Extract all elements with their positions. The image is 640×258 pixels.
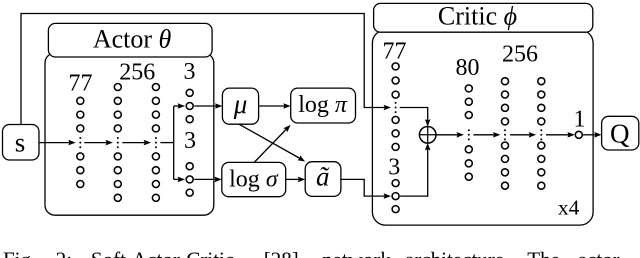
svg-text:77: 77 (383, 39, 407, 65)
svg-text:The: The (527, 248, 560, 258)
svg-text:77: 77 (69, 71, 93, 97)
svg-text:actor: actor (578, 248, 620, 258)
svg-text:256: 256 (502, 42, 538, 68)
svg-text:Actor-Critic: Actor-Critic (132, 248, 234, 258)
svg-text:x4: x4 (558, 196, 580, 220)
svg-text:Q: Q (610, 118, 630, 148)
svg-text:1: 1 (574, 107, 586, 133)
svg-text:log σ: log σ (229, 166, 279, 192)
svg-text:3: 3 (184, 59, 196, 85)
svg-text:80: 80 (456, 55, 480, 81)
svg-text:Actor θ: Actor θ (93, 25, 172, 54)
svg-text:2:: 2: (56, 248, 72, 258)
svg-text:Soft: Soft (91, 248, 126, 258)
svg-text:3: 3 (388, 155, 400, 181)
svg-text:μ: μ (233, 89, 248, 119)
svg-text:Fig.: Fig. (3, 248, 36, 258)
svg-text:ã: ã (316, 162, 330, 192)
svg-text:Critic ϕ: Critic ϕ (438, 1, 517, 30)
svg-text:log π: log π (298, 92, 348, 118)
svg-text:[28]: [28] (264, 248, 299, 258)
svg-text:3: 3 (184, 128, 196, 154)
svg-text:256: 256 (119, 60, 155, 86)
svg-text:architecture.: architecture. (405, 248, 509, 258)
svg-text:network: network (322, 248, 391, 258)
svg-text:s: s (15, 127, 26, 157)
